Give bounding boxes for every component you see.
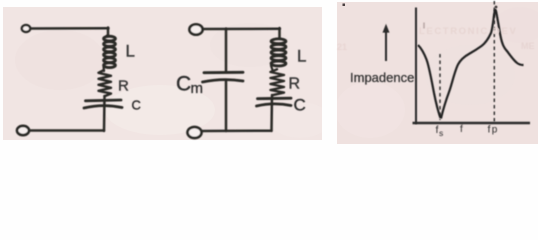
scan speck top of graph block bbox=[343, 4, 346, 7]
svg-text:21: 21 bbox=[337, 42, 347, 52]
svg-text:m: m bbox=[191, 80, 204, 97]
wire (coil to resistor link) bbox=[102, 67, 105, 72]
svg-text:C: C bbox=[294, 96, 306, 115]
graph: up arrow shaft bbox=[385, 31, 387, 61]
graph: impedance curve bbox=[418, 10, 524, 118]
wire (left circuit, top corner down) bbox=[106, 28, 108, 37]
svg-text:C: C bbox=[176, 73, 191, 96]
svg-text:ME: ME bbox=[521, 41, 535, 51]
capacitor C (middle circuit) top plate bbox=[258, 97, 292, 100]
svg-text:R: R bbox=[289, 76, 301, 93]
graph: x-axis bbox=[413, 122, 531, 124]
capacitor C (left circuit) bottom plate bbox=[84, 106, 122, 108]
wire (left circuit, top horizontal) bbox=[31, 27, 109, 30]
svg-text:L: L bbox=[126, 42, 135, 61]
svg-text:L: L bbox=[297, 47, 306, 66]
svg-text:s: s bbox=[439, 128, 443, 138]
wire (Cm branch vertical, lower) bbox=[225, 81, 228, 131]
graph: dashed line at fs bbox=[439, 54, 441, 120]
svg-text:LECTRONIC DEV: LECTRONIC DEV bbox=[419, 26, 517, 37]
capacitor C (left circuit) top plate bbox=[86, 99, 122, 103]
svg-text:p: p bbox=[492, 125, 498, 136]
graph: dashed line at fp bbox=[493, 1, 495, 122]
terminal (left circuit, bottom) bbox=[17, 126, 29, 135]
svg-text:C: C bbox=[132, 98, 141, 113]
wire (Cm branch vertical, upper) bbox=[225, 29, 228, 72]
svg-text:R: R bbox=[118, 78, 129, 95]
wire (middle circuit, top horizontal) bbox=[203, 28, 280, 31]
wire (middle circuit vertical through capacitor) bbox=[270, 95, 273, 131]
terminal (left circuit, top) bbox=[22, 25, 30, 32]
inductor L (left circuit coil) bbox=[104, 36, 116, 67]
ink dot above peak bbox=[495, 6, 498, 9]
svg-text:f: f bbox=[488, 124, 491, 136]
graph: up arrow head bbox=[383, 24, 390, 33]
capacitor Cm bottom plate bbox=[203, 80, 244, 82]
capacitor C (middle circuit) bottom plate bbox=[257, 104, 292, 106]
wire (middle circuit bottom horizontal) bbox=[202, 129, 272, 132]
svg-text:Impadence: Impadence bbox=[350, 70, 414, 85]
graph: y-axis bbox=[415, 8, 417, 125]
capacitor Cm top plate bbox=[204, 71, 243, 74]
resistor R (middle circuit zigzag) bbox=[271, 69, 285, 95]
inductor L (middle circuit coil) bbox=[271, 39, 286, 66]
wire (left circuit bottom horizontal) bbox=[30, 129, 105, 132]
terminal (middle circuit, top) bbox=[189, 24, 202, 34]
svg-text:f: f bbox=[460, 124, 463, 135]
wire (middle circuit, top corner down) bbox=[278, 28, 281, 38]
scanned figure background (circuits block) bbox=[3, 7, 322, 140]
wire (left circuit vertical through capacitor) bbox=[103, 96, 106, 131]
terminal (middle circuit, bottom) bbox=[188, 127, 202, 138]
wire (middle coil to resistor link) bbox=[271, 66, 273, 71]
resistor R (left circuit zigzag) bbox=[99, 70, 112, 96]
